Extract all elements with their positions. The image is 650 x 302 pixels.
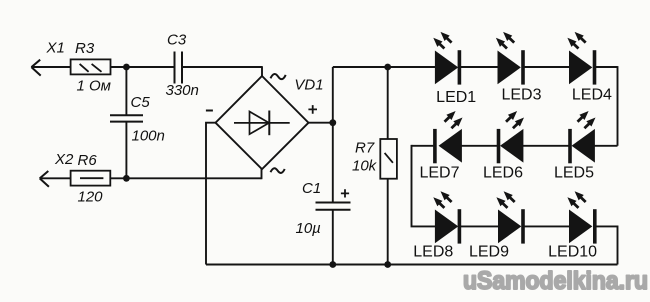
bridge rectifier VD1 diamond [216, 76, 309, 169]
wire X1 to R3 [31, 66, 70, 68]
wire LED6 to LED7 [461, 145, 497, 147]
wire left connector middle-bottom [412, 145, 436, 227]
svg-text:10µ: 10µ [296, 220, 321, 237]
terminal X2 arrow [40, 171, 49, 187]
svg-text:VD1: VD1 [294, 77, 323, 94]
wire C1 top lead [332, 123, 334, 203]
svg-text:X1: X1 [46, 40, 65, 57]
wire LED10 to bus [596, 226, 617, 264]
resistor R7 slash [385, 153, 393, 163]
bridge diode axis [234, 122, 290, 124]
svg-text:LED8: LED8 [413, 244, 453, 261]
svg-text:330n: 330n [166, 82, 199, 99]
bridge diode cathode bar [268, 111, 270, 136]
resistor R6 body [71, 171, 111, 186]
wire C1 bottom lead [332, 210, 334, 265]
node dot bridge plus [329, 119, 336, 126]
svg-text:1 Ом: 1 Ом [77, 78, 111, 95]
node dot top rail [123, 64, 130, 71]
wire C3 to bridge top [183, 66, 262, 68]
wire R3 to C3 [111, 66, 174, 68]
svg-text:R3: R3 [75, 40, 95, 57]
svg-text:LED4: LED4 [572, 87, 612, 104]
LED6 symbol [497, 129, 523, 163]
wire stub to bridge top corner [261, 66, 263, 76]
LED3 emission arrows [493, 29, 516, 51]
node dot C1 on bus [329, 261, 336, 268]
svg-text:120: 120 [78, 188, 104, 205]
minus sign at bridge [206, 110, 213, 112]
plus sign at C1 [341, 189, 349, 197]
LED1 emission arrows [431, 29, 454, 51]
LED4 symbol [570, 50, 597, 84]
svg-text:C5: C5 [131, 94, 151, 111]
node dot R7 on bus [384, 261, 391, 268]
LED1 symbol [435, 50, 461, 84]
LED8 emission arrows [431, 189, 454, 211]
wire bridge minus down [206, 123, 216, 265]
wire LED9 to LED10 [525, 225, 570, 227]
wire right connector top-middle [617, 66, 619, 146]
wire right edge to LED5 [594, 145, 617, 147]
wire X2 to R6 [40, 177, 71, 179]
wire R7 top lead [387, 67, 389, 139]
wire bridge plus to node [309, 122, 333, 124]
wire top positive rail [333, 66, 436, 68]
LED6 emission arrows [503, 108, 526, 131]
svg-text:R6: R6 [78, 152, 98, 169]
node dot bottom rail [123, 175, 130, 182]
bridge diode triangle [250, 112, 270, 135]
tilde at bridge top [271, 74, 286, 79]
svg-text:C3: C3 [167, 32, 187, 49]
LED10 symbol [570, 209, 597, 243]
plus sign at bridge [308, 105, 317, 114]
resistor R3 slashes [80, 64, 102, 72]
LED5 symbol [568, 129, 594, 163]
LED7 emission arrows [442, 108, 465, 131]
svg-text:LED10: LED10 [548, 244, 597, 261]
svg-text:LED5: LED5 [554, 165, 594, 182]
LED5 emission arrows [575, 108, 598, 131]
wire LED4 to right edge [596, 66, 618, 68]
capacitor C5 plates [110, 115, 143, 121]
terminal X1 arrow [31, 60, 40, 76]
LED7 symbol [433, 129, 461, 163]
tilde at bridge bottom [271, 168, 285, 173]
resistor R7 body [380, 139, 397, 179]
wire LED5 to LED6 [523, 145, 569, 147]
wire plus riser [332, 67, 334, 123]
svg-text:LED7: LED7 [419, 165, 459, 182]
wire bottom bus [206, 264, 618, 266]
svg-text:10k: 10k [352, 158, 378, 175]
svg-text:R7: R7 [355, 140, 375, 157]
wire stub to bridge bottom corner [261, 169, 263, 179]
wire LED3 to LED4 [525, 66, 570, 68]
LED10 emission arrows [565, 189, 588, 211]
wire C5 top lead [125, 67, 127, 115]
capacitor C3 plates [175, 52, 183, 84]
capacitor C1 plates [316, 203, 351, 210]
svg-text:X2: X2 [54, 151, 74, 168]
wire LED8 to LED9 [461, 225, 499, 227]
svg-text:uSamodelkina.ru: uSamodelkina.ru [463, 267, 648, 295]
svg-text:LED3: LED3 [501, 87, 541, 104]
svg-text:LED1: LED1 [436, 89, 476, 106]
LED9 symbol [499, 209, 525, 243]
wire LED7 to left connector [412, 145, 434, 147]
LED3 symbol [498, 50, 525, 84]
svg-text:LED9: LED9 [469, 244, 509, 261]
LED8 symbol [435, 209, 461, 243]
resistor R3 body [71, 59, 111, 74]
node dot R7 tap [384, 64, 391, 71]
svg-text:100n: 100n [132, 128, 165, 145]
wire C5 bottom lead [125, 122, 127, 179]
wire LED1 to LED3 [461, 66, 498, 68]
resistor R6 inner bar [80, 177, 103, 179]
svg-text:LED6: LED6 [483, 165, 523, 182]
wire R7 bottom lead [387, 179, 389, 265]
svg-text:C1: C1 [302, 180, 321, 197]
wire R6 to bridge bottom [110, 177, 261, 179]
LED4 emission arrows [565, 29, 588, 51]
LED9 emission arrows [494, 189, 517, 211]
